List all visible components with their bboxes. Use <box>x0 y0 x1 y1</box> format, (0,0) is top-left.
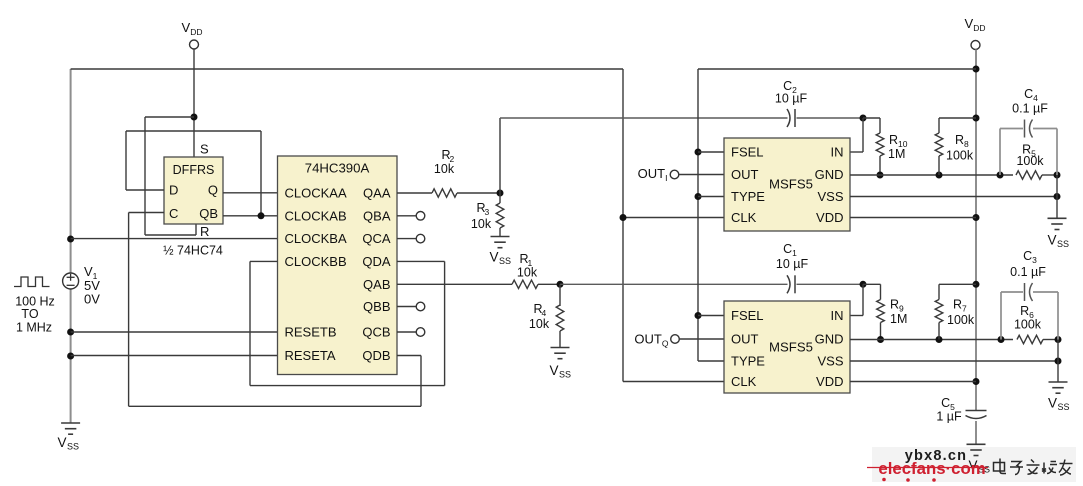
svg-text:1M: 1M <box>890 312 907 326</box>
svg-text:TYPE: TYPE <box>731 189 765 204</box>
svg-text:8: 8 <box>964 139 969 149</box>
svg-text:S: S <box>200 142 209 157</box>
svg-text:V: V <box>549 363 558 378</box>
svg-text:DFFRS: DFFRS <box>173 163 215 177</box>
svg-text:QCA: QCA <box>362 231 391 246</box>
svg-text:0.1 µF: 0.1 µF <box>1012 102 1048 116</box>
svg-text:1M: 1M <box>888 147 905 161</box>
svg-text:VSS: VSS <box>817 354 843 369</box>
svg-text:QB: QB <box>199 206 218 221</box>
svg-text:V: V <box>57 435 66 450</box>
svg-text:100k: 100k <box>946 149 974 163</box>
svg-text:QAA: QAA <box>363 186 391 201</box>
svg-text:10 µF: 10 µF <box>776 257 809 271</box>
svg-text:3: 3 <box>485 207 490 217</box>
svg-text:1 µF: 1 µF <box>936 410 962 424</box>
svg-text:10k: 10k <box>529 317 550 331</box>
svg-text:MSFS5: MSFS5 <box>769 340 813 355</box>
svg-text:TYPE: TYPE <box>731 354 765 369</box>
svg-text:10k: 10k <box>434 162 455 176</box>
svg-text:QDA: QDA <box>362 254 391 269</box>
svg-text:100k: 100k <box>1014 318 1042 332</box>
svg-text:V: V <box>489 250 498 265</box>
svg-text:CLOCKBA: CLOCKBA <box>285 231 347 246</box>
svg-text:SS: SS <box>1057 402 1069 412</box>
svg-text:VDD: VDD <box>816 374 843 389</box>
svg-text:C: C <box>169 206 178 221</box>
svg-text:V: V <box>1047 233 1056 248</box>
svg-text:QDB: QDB <box>362 348 390 363</box>
svg-text:FSEL: FSEL <box>731 308 764 323</box>
svg-text:OUTI: OUTI <box>638 166 668 183</box>
svg-text:R: R <box>889 133 898 147</box>
svg-text:MSFS5: MSFS5 <box>769 177 813 192</box>
svg-text:0V: 0V <box>84 292 100 307</box>
svg-text:100k: 100k <box>1016 154 1044 168</box>
svg-text:10k: 10k <box>471 217 492 231</box>
svg-text:R: R <box>955 133 964 147</box>
svg-text:QBB: QBB <box>363 299 390 314</box>
svg-text:OUT: OUT <box>731 167 759 182</box>
svg-text:CLOCKBB: CLOCKBB <box>285 254 347 269</box>
svg-text:FSEL: FSEL <box>731 145 764 160</box>
svg-text:½ 74HC74: ½ 74HC74 <box>163 244 223 258</box>
svg-text:100k: 100k <box>947 313 975 327</box>
svg-text:D: D <box>169 183 178 198</box>
svg-text:QAB: QAB <box>363 277 390 292</box>
svg-text:CLK: CLK <box>731 374 757 389</box>
svg-text:OUT: OUT <box>731 332 759 347</box>
svg-text:elecfans·com: elecfans·com <box>878 459 985 478</box>
svg-text:0.1 µF: 0.1 µF <box>1010 265 1046 279</box>
svg-text:10k: 10k <box>517 266 538 280</box>
svg-text:SS: SS <box>499 256 511 266</box>
svg-text:R: R <box>953 298 962 312</box>
svg-text:V: V <box>1048 396 1057 411</box>
svg-text:74HC390A: 74HC390A <box>305 161 370 176</box>
svg-text:SS: SS <box>559 370 571 380</box>
svg-text:RESETA: RESETA <box>285 348 336 363</box>
svg-text:IN: IN <box>831 308 844 323</box>
svg-text:RESETB: RESETB <box>285 325 337 340</box>
svg-text:IN: IN <box>831 145 844 160</box>
svg-text:1 MHz: 1 MHz <box>16 321 52 335</box>
svg-text:R: R <box>890 298 899 312</box>
svg-text:CLOCKAB: CLOCKAB <box>285 208 347 223</box>
svg-text:CLK: CLK <box>731 210 757 225</box>
svg-text:TO: TO <box>21 307 38 321</box>
svg-text:QBA: QBA <box>363 208 391 223</box>
svg-text:VDD: VDD <box>816 210 843 225</box>
svg-text:VSS: VSS <box>817 189 843 204</box>
svg-text:GND: GND <box>815 167 844 182</box>
svg-text:QCB: QCB <box>362 325 390 340</box>
svg-text:7: 7 <box>962 304 967 314</box>
svg-text:GND: GND <box>815 332 844 347</box>
svg-text:SS: SS <box>1057 239 1069 249</box>
svg-text:Q: Q <box>208 183 218 198</box>
svg-text:R: R <box>200 224 209 239</box>
svg-text:CLOCKAA: CLOCKAA <box>285 186 347 201</box>
svg-text:SS: SS <box>67 442 79 452</box>
svg-text:10 µF: 10 µF <box>775 92 808 106</box>
